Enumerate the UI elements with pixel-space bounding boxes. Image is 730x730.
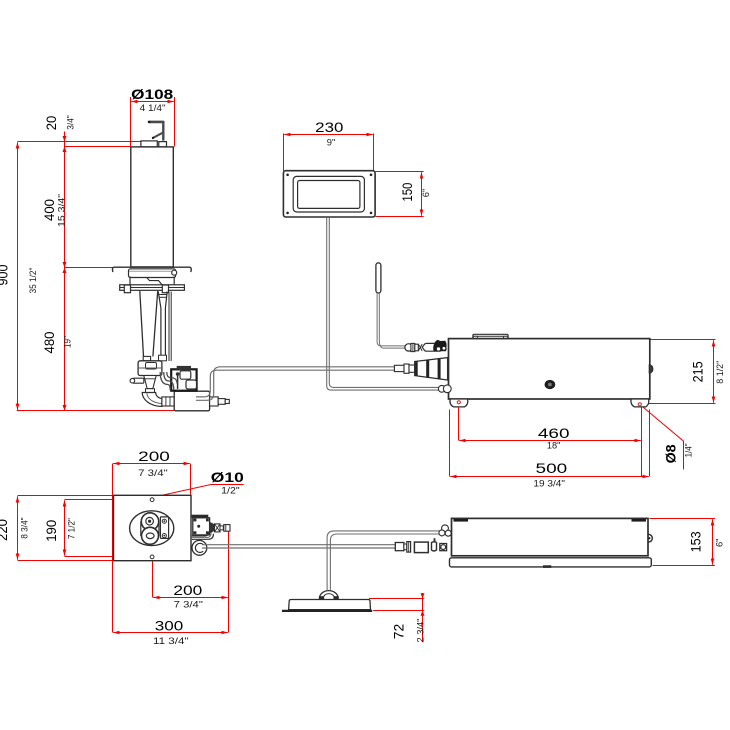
svg-text:Ø10: Ø10 xyxy=(211,469,244,485)
svg-text:11 3/4": 11 3/4" xyxy=(153,636,189,647)
svg-text:1/2": 1/2" xyxy=(221,485,240,496)
svg-text:2 3/4": 2 3/4" xyxy=(416,619,427,643)
svg-text:153: 153 xyxy=(688,531,704,552)
svg-text:19 3/4": 19 3/4" xyxy=(533,479,565,490)
svg-text:4 1/4": 4 1/4" xyxy=(140,103,166,114)
svg-text:480: 480 xyxy=(41,331,57,353)
svg-text:200: 200 xyxy=(138,448,170,464)
svg-text:8 3/4": 8 3/4" xyxy=(20,517,31,538)
svg-text:18": 18" xyxy=(547,441,561,452)
svg-text:7 3/4": 7 3/4" xyxy=(174,600,203,611)
svg-text:19": 19" xyxy=(63,336,74,348)
svg-text:6": 6" xyxy=(421,189,432,198)
svg-text:72: 72 xyxy=(391,624,407,640)
svg-text:300: 300 xyxy=(155,617,184,633)
svg-text:215: 215 xyxy=(689,361,705,382)
svg-text:9": 9" xyxy=(327,137,336,148)
svg-text:15 3/4": 15 3/4" xyxy=(57,194,68,227)
svg-text:8 1/2": 8 1/2" xyxy=(715,361,726,384)
svg-text:6": 6" xyxy=(714,539,725,548)
svg-text:7 1/2": 7 1/2" xyxy=(67,518,78,539)
svg-text:Ø108: Ø108 xyxy=(131,86,173,102)
svg-text:35 1/2": 35 1/2" xyxy=(28,268,39,294)
svg-text:200: 200 xyxy=(173,582,202,598)
svg-text:220: 220 xyxy=(0,519,10,541)
svg-text:230: 230 xyxy=(315,119,343,135)
svg-text:400: 400 xyxy=(41,199,57,221)
svg-text:Ø8: Ø8 xyxy=(663,444,679,463)
svg-text:900: 900 xyxy=(0,264,11,285)
svg-text:20: 20 xyxy=(43,116,59,131)
svg-text:150: 150 xyxy=(399,182,415,201)
svg-text:1/4": 1/4" xyxy=(683,443,694,457)
svg-text:190: 190 xyxy=(43,520,59,542)
svg-text:460: 460 xyxy=(538,425,570,441)
svg-text:500: 500 xyxy=(536,460,568,476)
svg-text:7 3/4": 7 3/4" xyxy=(138,468,168,479)
svg-text:3/4": 3/4" xyxy=(65,115,76,130)
